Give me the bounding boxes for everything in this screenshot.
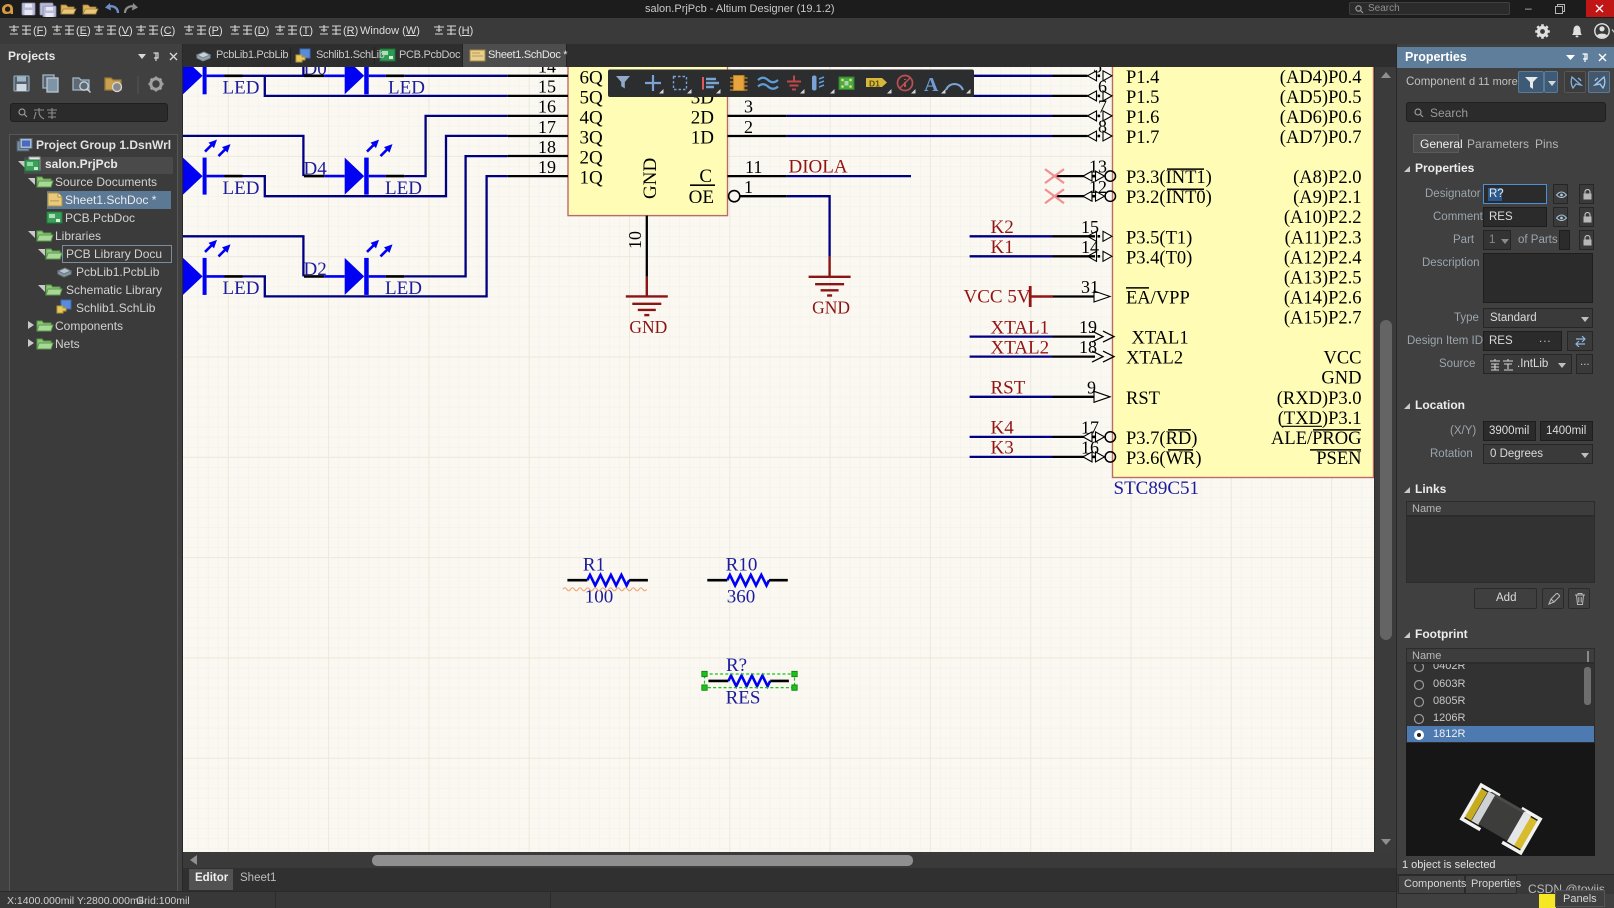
U2 pin stub row 16 bbox=[1053, 396, 1096, 398]
resistor R? (selected) bbox=[708, 676, 789, 687]
svg-text:5: 5 bbox=[1093, 67, 1102, 76]
wire net K4 to pin 17 bbox=[970, 436, 1053, 438]
svg-text:DIOLA: DIOLA bbox=[789, 157, 848, 178]
svg-text:P3.2(INT0): P3.2(INT0) bbox=[1126, 188, 1212, 208]
svg-text:PSEN: PSEN bbox=[1316, 449, 1361, 469]
svg-text:100: 100 bbox=[585, 587, 614, 608]
svg-text:1D: 1D bbox=[691, 128, 714, 149]
no-ERC marker (red X) on pin 13 bbox=[1045, 169, 1064, 183]
svg-text:P1.7: P1.7 bbox=[1126, 128, 1159, 148]
wire U1.3D to P1.5 (pin 6) bbox=[787, 95, 1053, 97]
schlib icon bbox=[296, 49, 310, 62]
svg-text:LED: LED bbox=[388, 78, 425, 99]
tree area bbox=[9, 134, 178, 908]
svg-text:P1.5: P1.5 bbox=[1126, 88, 1159, 108]
svg-text:1Q: 1Q bbox=[580, 168, 604, 189]
ground symbol GND (U1 OE) bbox=[809, 257, 851, 296]
svg-text:GND: GND bbox=[812, 297, 850, 317]
LED diode D4b bbox=[304, 158, 404, 195]
Location section bbox=[1403, 402, 1411, 410]
U2 pin stub row 14 bbox=[1053, 355, 1096, 357]
svg-text:XTAL1: XTAL1 bbox=[1132, 329, 1189, 349]
rows bbox=[24, 157, 173, 174]
svg-text:LED: LED bbox=[223, 278, 260, 299]
svg-text:R?: R? bbox=[726, 655, 747, 676]
svg-text:3Q: 3Q bbox=[580, 128, 604, 149]
selection box around R? bbox=[705, 674, 795, 688]
svg-text:(AD7)P0.7: (AD7)P0.7 bbox=[1280, 128, 1362, 148]
U2 pin 19 chevron arrow bbox=[1092, 331, 1114, 342]
svg-text:(A8)P2.0: (A8)P2.0 bbox=[1293, 168, 1361, 188]
svg-text:P1.6: P1.6 bbox=[1126, 108, 1159, 128]
compile-warning squiggle under R1 bbox=[563, 588, 647, 591]
svg-text:P3.6(WR): P3.6(WR) bbox=[1126, 449, 1202, 469]
svg-text:K2: K2 bbox=[991, 217, 1014, 238]
resistor R10 bbox=[707, 575, 788, 586]
U2 pin 15 I/O arrow bbox=[1088, 231, 1113, 241]
wire net RST to pin 9 bbox=[970, 396, 1053, 398]
wire net K2 to pin 15 bbox=[970, 235, 1053, 237]
floating schematic toolbar overlay bbox=[608, 70, 974, 98]
wire D4a cathode stub bbox=[243, 175, 267, 177]
wire D0a cathode to D0b anode bbox=[243, 75, 305, 77]
svg-text:LED: LED bbox=[223, 78, 260, 99]
light emission arrows of D2a bbox=[205, 240, 231, 257]
wire U1.1D to P1.7 (pin 8) bbox=[787, 135, 1053, 137]
light emission arrows of D4a bbox=[205, 140, 231, 157]
svg-text:10: 10 bbox=[625, 231, 645, 249]
wire D2a rail to pin 19 (1Q) bbox=[265, 176, 508, 296]
SchLib icon bbox=[57, 300, 71, 313]
svg-text:RST: RST bbox=[1126, 389, 1160, 409]
svg-text:13: 13 bbox=[1089, 157, 1107, 177]
U2 pin 16 stub with bubble bbox=[1053, 456, 1097, 458]
svg-text:18: 18 bbox=[538, 137, 556, 157]
header bbox=[1397, 47, 1614, 68]
Sheet1 icon bbox=[48, 193, 62, 206]
resistor R1 bbox=[567, 575, 648, 586]
svg-text:5Q: 5Q bbox=[580, 87, 604, 108]
svg-text:GND: GND bbox=[1321, 369, 1361, 389]
U2 pin 8 I/O arrow bbox=[1088, 131, 1113, 141]
svg-text:360: 360 bbox=[727, 587, 756, 608]
svg-text:11: 11 bbox=[745, 157, 762, 177]
svg-text:7: 7 bbox=[1098, 97, 1107, 117]
overline PSEN bbox=[1310, 449, 1361, 451]
wire U1.2D to P1.6 (pin 7) bbox=[787, 115, 1053, 117]
LED diode D0b bbox=[304, 57, 404, 94]
search box bbox=[10, 103, 168, 122]
svg-text:1: 1 bbox=[744, 177, 753, 197]
svg-text:K4: K4 bbox=[991, 418, 1015, 439]
U2 pin 13 stub with bubble bbox=[1053, 175, 1097, 177]
svg-text:(AD6)P0.6: (AD6)P0.6 bbox=[1280, 108, 1362, 128]
U2 pin stub row 13 bbox=[1053, 335, 1096, 337]
U2 pin 5 I/O arrow bbox=[1088, 71, 1113, 81]
svg-text:8: 8 bbox=[1098, 117, 1107, 137]
svg-text:(AD4)P0.4: (AD4)P0.4 bbox=[1280, 68, 1362, 88]
wire U1.OE to GND bbox=[787, 196, 830, 257]
svg-text:(A11)P2.3: (A11)P2.3 bbox=[1285, 228, 1362, 248]
3D preview bbox=[1406, 743, 1595, 856]
svg-text:A: A bbox=[924, 74, 939, 96]
svg-text:2Q: 2Q bbox=[580, 148, 604, 169]
wire D2a cathode stub bbox=[243, 275, 267, 277]
svg-text:OE: OE bbox=[689, 187, 714, 208]
svg-text:19: 19 bbox=[538, 157, 556, 177]
schematic sheet background bbox=[183, 67, 1374, 852]
search box bbox=[1349, 2, 1510, 15]
svg-text:(RXD)P3.0: (RXD)P3.0 bbox=[1277, 389, 1362, 409]
expand arrows bbox=[18, 161, 45, 347]
U2 pin stub row 9 bbox=[1053, 255, 1096, 257]
svg-text:XTAL2: XTAL2 bbox=[991, 337, 1050, 358]
svg-text:16: 16 bbox=[1081, 438, 1099, 458]
wire incoming net to D0b anode (clipped at top) bbox=[302, 67, 304, 76]
light emission arrows of D4b bbox=[367, 140, 393, 157]
U1 left pin lines (pins 14-19) bbox=[508, 75, 568, 77]
U2 pin stub row 11 bbox=[1053, 295, 1096, 297]
svg-text:VCC 5V: VCC 5V bbox=[964, 287, 1031, 308]
svg-text:(A9)P2.1: (A9)P2.1 bbox=[1293, 188, 1361, 208]
U2 pin 31 input arrow bbox=[1094, 291, 1110, 302]
salon.PrjPcb icon bbox=[25, 157, 40, 171]
LED diode D2b bbox=[304, 258, 404, 295]
LED diode D4a (clipped at canvas edge) bbox=[183, 158, 243, 195]
schdoc icon bbox=[470, 50, 485, 61]
svg-text:4Q: 4Q bbox=[580, 107, 604, 128]
wire incoming net to D2b anode bbox=[183, 236, 303, 276]
overline PROG bbox=[1313, 429, 1361, 431]
svg-text:LED: LED bbox=[385, 278, 422, 299]
wire net DIOLA from U1.C bbox=[787, 175, 911, 177]
window title bbox=[645, 3, 835, 15]
svg-text:XTAL2: XTAL2 bbox=[1126, 349, 1183, 369]
quick access toolbar icons bbox=[2, 1, 142, 17]
wire D2b cathode to pin 18 (2Q) bbox=[404, 156, 507, 276]
wire net K3 to pin 16 bbox=[970, 456, 1053, 458]
svg-text:14: 14 bbox=[1081, 237, 1099, 257]
window buttons bbox=[1525, 1, 1532, 15]
svg-text:3: 3 bbox=[744, 97, 753, 117]
svg-text:18: 18 bbox=[1079, 337, 1097, 357]
U1 pin 1 line (OE) with bubble bbox=[729, 191, 740, 202]
wire D0b cathode to pin 14 (6Q) bbox=[404, 75, 507, 77]
svg-text:C: C bbox=[699, 166, 712, 187]
svg-text:ALE/PROG: ALE/PROG bbox=[1271, 429, 1361, 449]
U1 right pin lines (pins 3,2) bbox=[728, 115, 787, 117]
overline EA bbox=[1126, 287, 1149, 289]
LED diode D0a (clipped at canvas edge) bbox=[183, 57, 243, 94]
svg-text:(A14)P2.6: (A14)P2.6 bbox=[1284, 289, 1362, 309]
svg-text:12: 12 bbox=[1089, 177, 1107, 197]
project group icon bbox=[17, 139, 32, 152]
svg-text:P3.5(T1): P3.5(T1) bbox=[1126, 228, 1192, 248]
svg-text:R10: R10 bbox=[726, 555, 758, 576]
svg-text:GND: GND bbox=[629, 317, 667, 337]
svg-text:P3.4(T0): P3.4(T0) bbox=[1126, 248, 1192, 268]
svg-text:XTAL1: XTAL1 bbox=[991, 317, 1050, 338]
svg-text:15: 15 bbox=[1081, 217, 1099, 237]
Footprint section bbox=[1403, 631, 1411, 639]
svg-text:P1.4: P1.4 bbox=[1126, 68, 1159, 88]
svg-text:17: 17 bbox=[1081, 418, 1099, 438]
pcblib icon bbox=[197, 52, 210, 61]
wire D4a rail to pin 17 (3Q) bbox=[265, 136, 508, 196]
U2 pin 7 I/O arrow bbox=[1088, 111, 1113, 121]
wire net XTAL2 to pin 18 bbox=[970, 355, 1053, 357]
ground symbol GND (U1 pin 10) bbox=[626, 277, 668, 315]
svg-text:K1: K1 bbox=[991, 237, 1014, 258]
tabs bbox=[1413, 134, 1459, 153]
U2 pin 17 stub with bubble bbox=[1053, 436, 1097, 438]
svg-text:16: 16 bbox=[538, 97, 556, 117]
svg-text:2: 2 bbox=[744, 117, 753, 137]
svg-text:6: 6 bbox=[1098, 77, 1107, 97]
U1 pin 10 line to ground bbox=[646, 216, 648, 277]
svg-text:K3: K3 bbox=[991, 438, 1014, 459]
svg-text:D1: D1 bbox=[869, 79, 880, 89]
svg-text:(A13)P2.5: (A13)P2.5 bbox=[1284, 268, 1362, 288]
Properties section bbox=[1403, 165, 1411, 173]
panel header bbox=[8, 49, 55, 63]
overline INT0 bbox=[1167, 188, 1204, 190]
U1 pin 11 line (C) bbox=[728, 175, 787, 177]
svg-text:VCC: VCC bbox=[1323, 349, 1361, 369]
svg-text:P3.3(INT1): P3.3(INT1) bbox=[1126, 168, 1212, 188]
eye / lock buttons bbox=[1553, 184, 1568, 204]
svg-text:P3.7(RD): P3.7(RD) bbox=[1126, 429, 1197, 449]
svg-text:31: 31 bbox=[1081, 277, 1099, 297]
U2 pin 6 I/O arrow bbox=[1088, 91, 1113, 101]
svg-text:15: 15 bbox=[538, 77, 556, 97]
U2 pin stub row 8 bbox=[1053, 235, 1096, 237]
overline WR bbox=[1168, 449, 1193, 451]
component row bbox=[1406, 76, 1465, 88]
svg-text:9: 9 bbox=[1087, 377, 1096, 397]
black pin stubs at STC89C51 pins 5-8 bbox=[1053, 75, 1088, 77]
svg-text:RST: RST bbox=[991, 378, 1026, 399]
svg-text:EA/VPP: EA/VPP bbox=[1126, 289, 1190, 309]
PcbLib icon bbox=[58, 268, 71, 277]
wire incoming net to D4b anode bbox=[183, 136, 303, 176]
U2 pin 14 I/O arrow bbox=[1088, 251, 1113, 261]
light emission arrows of D2b bbox=[367, 240, 393, 257]
svg-text:D4: D4 bbox=[304, 159, 328, 180]
pcbdoc icon bbox=[380, 49, 395, 61]
svg-text:(A10)P2.2: (A10)P2.2 bbox=[1284, 208, 1362, 228]
svg-text:6Q: 6Q bbox=[580, 67, 604, 88]
right icons: gear, bell, user bbox=[1530, 21, 1614, 41]
wire net K1 to pin 14 bbox=[970, 255, 1053, 257]
svg-text:D2: D2 bbox=[304, 259, 327, 280]
svg-text:(AD5)P0.5: (AD5)P0.5 bbox=[1280, 88, 1362, 108]
overline RD bbox=[1168, 429, 1191, 431]
svg-text:STC89C51: STC89C51 bbox=[1114, 478, 1200, 499]
U2 pin 12 stub with bubble bbox=[1053, 195, 1097, 197]
svg-text:(A15)P2.7: (A15)P2.7 bbox=[1284, 309, 1362, 329]
svg-text:LED: LED bbox=[385, 178, 422, 199]
wire D4b cathode to pin 16 (4Q) bbox=[404, 116, 507, 176]
wire U1.4D to P1.4 (pin 5) bbox=[787, 75, 1053, 77]
U2 pin 18 chevron arrow bbox=[1092, 351, 1114, 362]
svg-text:(A12)P2.4: (A12)P2.4 bbox=[1284, 248, 1362, 268]
svg-text:19: 19 bbox=[1079, 317, 1097, 337]
svg-text:R1: R1 bbox=[583, 555, 605, 576]
Links section bbox=[1403, 486, 1411, 494]
panel toolbar icons bbox=[12, 73, 172, 97]
microcontroller U2 STC89C51 body bbox=[1113, 40, 1374, 478]
op-amp/latch IC U1 (74HC573 style) body bbox=[568, 40, 728, 216]
LED diode D2a (clipped at canvas edge) bbox=[183, 258, 243, 295]
svg-text:14: 14 bbox=[538, 67, 556, 77]
svg-text:GND: GND bbox=[640, 158, 661, 199]
PCB.PcbDoc icon bbox=[47, 212, 62, 223]
wire net XTAL1 to pin 19 bbox=[970, 335, 1053, 337]
svg-text:LED: LED bbox=[223, 178, 260, 199]
search bbox=[1406, 102, 1606, 122]
bottom tabs bbox=[1397, 874, 1614, 894]
U2 pin 9 input arrow bbox=[1094, 391, 1110, 402]
svg-text:17: 17 bbox=[538, 117, 556, 137]
wire D0a cathode tap to 5Q rail (pin 15) bbox=[265, 76, 508, 96]
overline TXD partial bbox=[1282, 425, 1322, 427]
overline INT1 bbox=[1167, 168, 1204, 170]
power port VCC 5V (bar) bbox=[1029, 286, 1032, 307]
no-ERC marker (red X) on pin 12 bbox=[1045, 189, 1064, 203]
svg-text:D0: D0 bbox=[304, 67, 327, 80]
svg-text:RES: RES bbox=[726, 687, 761, 708]
svg-text:2D: 2D bbox=[691, 107, 714, 128]
